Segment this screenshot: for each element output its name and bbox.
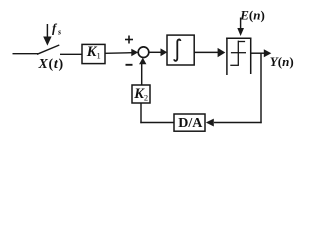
svg-text:K2: K2 — [133, 86, 148, 102]
svg-text:D/A: D/A — [178, 116, 203, 131]
svg-text:E(n): E(n) — [239, 7, 265, 22]
svg-text:K1: K1 — [86, 44, 101, 60]
svg-text:Y(n): Y(n) — [270, 54, 294, 69]
svg-text:fs: fs — [52, 21, 61, 36]
svg-text:X(t): X(t) — [38, 57, 64, 72]
